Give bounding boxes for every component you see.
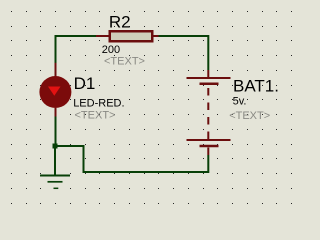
svg-text:<TEXT>: <TEXT> [229,110,270,122]
wire: junction down to ground [54,146,56,176]
battery BAT1 [187,70,231,155]
svg-text:200: 200 [102,44,120,56]
svg-text:LED-RED.: LED-RED. [73,98,124,110]
svg-text:R2: R2 [109,12,131,31]
svg-text:5v.: 5v. [233,96,247,108]
ground [40,176,70,189]
wire: net VCC top, R2.1 to corner to D1 anode [56,36,97,63]
svg-text:<TEXT>: <TEXT> [104,56,145,68]
wire: junction to BAT1 negative (step) [55,146,208,172]
resistor R2 [96,31,159,41]
node: wire junction dot [53,144,58,149]
wire: D1 cathode down to junction node [55,117,57,147]
svg-text:D1: D1 [74,74,96,93]
wire: net top right, R2.2 to BAT1 positive [159,36,209,70]
LED D1 [39,63,71,117]
svg-text:BAT1.: BAT1. [233,76,279,95]
svg-text:<TEXT>: <TEXT> [75,110,116,122]
